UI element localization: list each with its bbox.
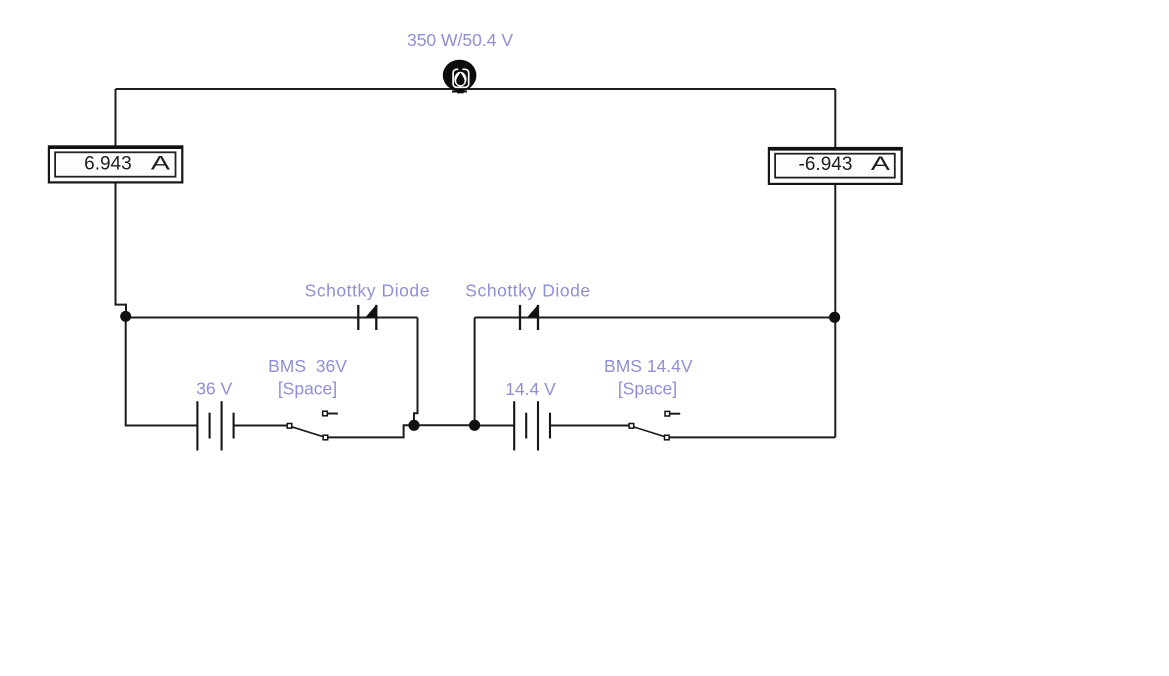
- wire right vertical (top to ammeter): [834, 89, 836, 148]
- ammeter M2 right: [768, 148, 902, 184]
- svg-text:BMS 14.4V: BMS 14.4V: [604, 356, 693, 376]
- switch S2 moving contact: [665, 435, 670, 440]
- switch S2 open contact stub: [670, 413, 681, 415]
- svg-text:Schottky Diode: Schottky Diode: [465, 280, 590, 300]
- wire diode1 corner down to node A: [414, 318, 418, 422]
- wire left vertical below ammeter with jog: [116, 182, 127, 312]
- svg-text:350 W/50.4 V: 350 W/50.4 V: [407, 30, 513, 50]
- switch S2 pivot contact: [629, 424, 634, 429]
- svg-text:6.943: 6.943: [84, 154, 132, 175]
- node L1 junction dot: [120, 311, 131, 322]
- wire diode2 row: [475, 317, 836, 319]
- svg-text:36 V: 36 V: [196, 378, 232, 398]
- wire node A to node B: [414, 424, 475, 426]
- svg-text:14.4 V: 14.4 V: [505, 379, 556, 399]
- wire left branch down to battery row: [126, 317, 198, 426]
- diode D1 Schottky: [358, 305, 376, 330]
- svg-text:-6.943: -6.943: [799, 154, 853, 175]
- wire left vertical (top to ammeter): [115, 89, 117, 147]
- wire right vertical below ammeter: [834, 184, 836, 437]
- diode D2 Schottky: [520, 305, 538, 330]
- battery B2 14.4V: [514, 401, 550, 450]
- switch S1 lever: [290, 426, 325, 437]
- node B junction dot: [469, 420, 480, 431]
- wire battery2 to switch2: [550, 425, 629, 427]
- switch S1 open contact stub: [327, 413, 338, 415]
- switch S2 lever: [632, 426, 667, 437]
- switch S1 pivot contact: [287, 424, 292, 429]
- svg-text:[Space]: [Space]: [278, 378, 337, 398]
- battery B1 36V: [197, 401, 233, 450]
- wire node B to battery2: [475, 425, 515, 427]
- switch S2 open contact: [665, 411, 670, 416]
- svg-text:[Space]: [Space]: [618, 378, 677, 398]
- svg-text:BMS 36V: BMS 36V: [268, 356, 347, 376]
- node R1 junction dot: [829, 312, 840, 323]
- wire top horizontal: [116, 88, 836, 90]
- wire node B up to diode2 row: [474, 318, 476, 426]
- svg-text:Schottky Diode: Schottky Diode: [305, 280, 430, 300]
- lamp L1 350W: [443, 60, 477, 94]
- svg-text:A: A: [871, 154, 891, 175]
- wire diode1 row: [126, 317, 418, 319]
- wire switch1 output to node A: [328, 425, 410, 437]
- switch S1 moving contact: [323, 435, 328, 440]
- switch S1 open contact: [323, 411, 328, 416]
- wire switch2 output to right vertical: [669, 436, 835, 438]
- wire battery1 to switch1: [234, 425, 288, 427]
- node A junction dot: [408, 420, 419, 431]
- svg-text:A: A: [151, 153, 171, 174]
- ammeter M1 left: [48, 146, 183, 182]
